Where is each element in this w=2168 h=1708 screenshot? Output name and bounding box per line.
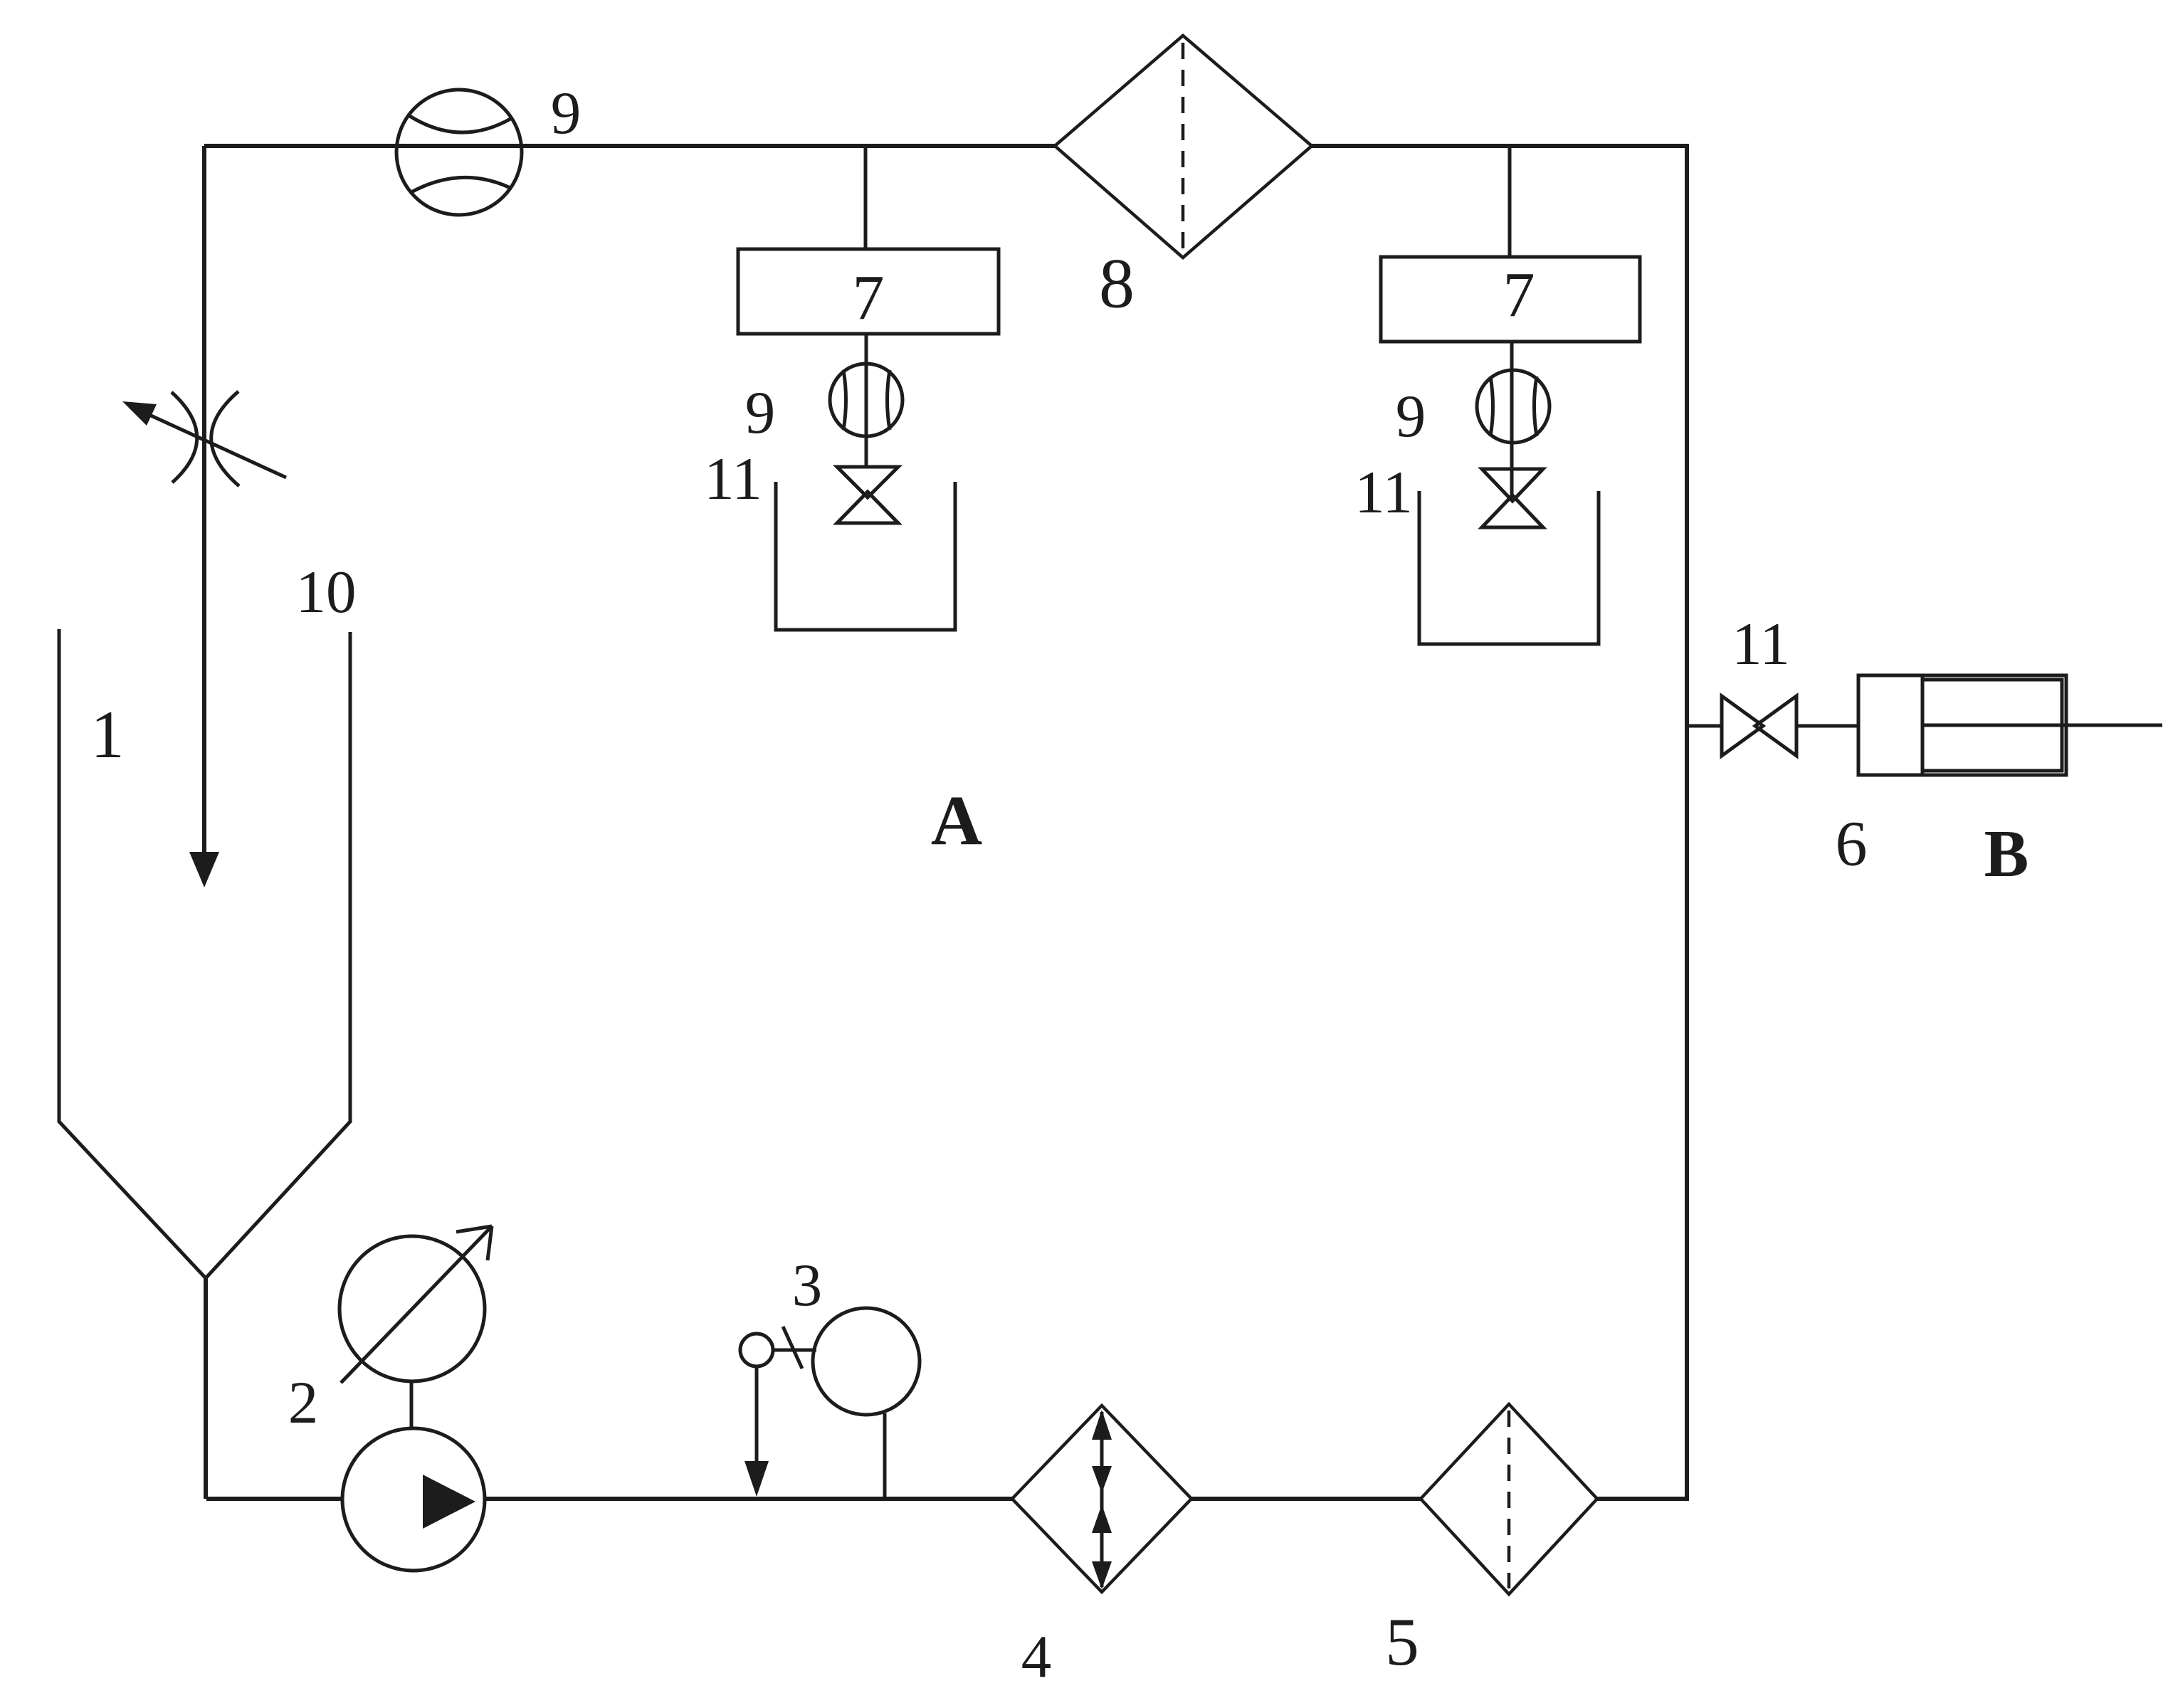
flow indicator 9 (left small) [830, 364, 903, 436]
svg-text:3: 3 [792, 1252, 823, 1319]
filter 5 (diamond with dashed line) [1421, 1404, 1597, 1594]
svg-text:9: 9 [745, 379, 776, 446]
shutoff valve 11 (horizontal bowtie) [1722, 696, 1796, 756]
svg-text:11: 11 [1354, 459, 1413, 526]
valve 11 (left, vertical bowtie) [837, 467, 898, 523]
svg-text:7: 7 [853, 263, 885, 334]
wire bottom segment 3 [1190, 1497, 1422, 1501]
tank (left small) [776, 482, 955, 630]
heater box 7 (left) [738, 249, 999, 334]
wire right vertical [1685, 146, 1689, 1501]
wire tank outlet [204, 1278, 208, 1499]
tank (right small) [1419, 491, 1599, 644]
wire stub to right box 7 [1508, 146, 1512, 257]
throttle valve 10 [122, 391, 286, 486]
wire valve to cylinder [1796, 724, 1858, 728]
wire bottom segment 1 [206, 1497, 342, 1501]
heater box 7 (right) [1381, 257, 1640, 342]
svg-text:7: 7 [1503, 260, 1535, 331]
svg-text:A: A [931, 781, 982, 860]
variable drive 2 (circle with arrow) [340, 1226, 492, 1383]
svg-text:4: 4 [1021, 1623, 1052, 1690]
cylinder 6 [1858, 675, 2162, 775]
flow indicator 9 (top) [396, 90, 522, 215]
wire drive-to-pump connector [410, 1381, 414, 1430]
wire top-right segment [1312, 144, 1689, 148]
svg-text:1: 1 [90, 697, 125, 772]
svg-text:B: B [1984, 817, 2029, 891]
tank 1 (hopper) [59, 629, 350, 1278]
flow indicator 9 (right small) [1477, 370, 1549, 443]
valve 11 (right, vertical bowtie) [1482, 469, 1543, 527]
pump 2 circle [342, 1428, 485, 1571]
wire top-left segment [204, 144, 1055, 148]
filter 8 (diamond with dashed line) [1055, 36, 1312, 258]
wire bottom segment 2 [485, 1497, 1014, 1501]
wire bottom segment 4 [1596, 1497, 1689, 1501]
svg-text:2: 2 [288, 1369, 319, 1436]
wire stub to left box 7 [864, 146, 868, 249]
svg-text:11: 11 [704, 446, 762, 512]
wire relief drain to line [883, 1413, 887, 1499]
wire to shutoff valve 11 [1687, 724, 1722, 728]
svg-text:8: 8 [1099, 244, 1135, 323]
cooler 4 (diamond with double arrows) [1012, 1406, 1191, 1592]
svg-text:6: 6 [1836, 809, 1868, 880]
svg-text:10: 10 [296, 559, 357, 626]
svg-text:11: 11 [1732, 611, 1790, 678]
wire left vertical with arrow into tank 1 [189, 146, 219, 887]
wire right box to valve [1510, 342, 1514, 498]
svg-text:5: 5 [1385, 1604, 1419, 1680]
svg-text:9: 9 [551, 80, 582, 147]
pressure relief 3 [740, 1308, 920, 1415]
wire left box to valve [865, 334, 868, 468]
svg-text:9: 9 [1396, 383, 1426, 450]
relief vent arrow [744, 1366, 769, 1497]
